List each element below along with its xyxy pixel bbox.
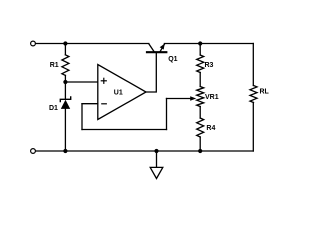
wire feedback right vertical — [166, 99, 168, 130]
resistor R1 — [62, 55, 69, 76]
wire wiper arrow to VR1 — [167, 98, 193, 100]
node top rail / R3 junction dot — [198, 41, 202, 45]
ground junction dot on bottom rail — [154, 149, 158, 153]
wire RL branch upper — [252, 44, 254, 86]
wire VR1 to R4 — [199, 107, 201, 119]
wire bottom rail — [36, 150, 254, 152]
wire R3 top lead — [199, 44, 201, 56]
wire op-amp inverting input — [82, 103, 98, 105]
op-amp U1 plus sign — [101, 78, 106, 83]
svg-text:U1: U1 — [114, 90, 123, 97]
svg-text:RL: RL — [260, 89, 270, 96]
op-amp U1 minus sign — [102, 103, 107, 105]
svg-text:Q1: Q1 — [168, 56, 177, 63]
potentiometer VR1 — [197, 87, 204, 107]
node D1 / bottom rail junction dot — [63, 149, 67, 153]
resistor R3 — [197, 55, 204, 73]
svg-text:VR1: VR1 — [205, 94, 219, 101]
svg-text:R3: R3 — [205, 62, 214, 69]
wire op-amp output to Q1 base — [146, 53, 156, 92]
wire feedback left vertical — [81, 104, 83, 130]
resistor RL — [250, 86, 257, 103]
wire top rail left (terminal to Q1 collector) — [36, 43, 149, 45]
arrowhead Q1 emitter — [160, 44, 165, 50]
wire D1 anode lead to bottom rail — [64, 109, 66, 151]
wire ground lead — [156, 151, 158, 167]
arrowhead VR1 wiper — [190, 96, 196, 101]
terminal bottom-left — [31, 149, 36, 154]
wire R1 bottom lead to node — [64, 75, 66, 82]
svg-text:R4: R4 — [206, 125, 215, 132]
wire R4 bottom lead — [199, 137, 201, 151]
wire R3 to VR1 — [199, 73, 201, 87]
terminal top-left — [31, 41, 36, 46]
wire feedback bottom horizontal — [82, 129, 167, 131]
wire RL branch lower — [252, 103, 254, 152]
node R4 / bottom rail junction dot — [198, 149, 202, 153]
op-amp U1 body — [98, 65, 146, 120]
node top rail / R1 junction dot — [63, 41, 67, 45]
transistor Q1 emitter lead — [160, 44, 164, 51]
wire R1 top lead — [64, 44, 66, 55]
resistor R4 — [197, 118, 204, 137]
transistor Q1 base bar — [147, 51, 166, 53]
transistor Q1 collector lead — [149, 44, 154, 51]
wire top rail right (Q1 emitter to RL corner) — [164, 43, 253, 45]
node R1/D1/+input junction dot — [63, 80, 67, 84]
svg-text:D1: D1 — [49, 105, 58, 112]
diode D1 (zener) — [60, 97, 70, 109]
wire node to op-amp + input — [65, 81, 97, 83]
ground symbol — [150, 167, 163, 178]
wire D1 cathode lead — [64, 82, 66, 99]
svg-text:R1: R1 — [50, 62, 59, 69]
